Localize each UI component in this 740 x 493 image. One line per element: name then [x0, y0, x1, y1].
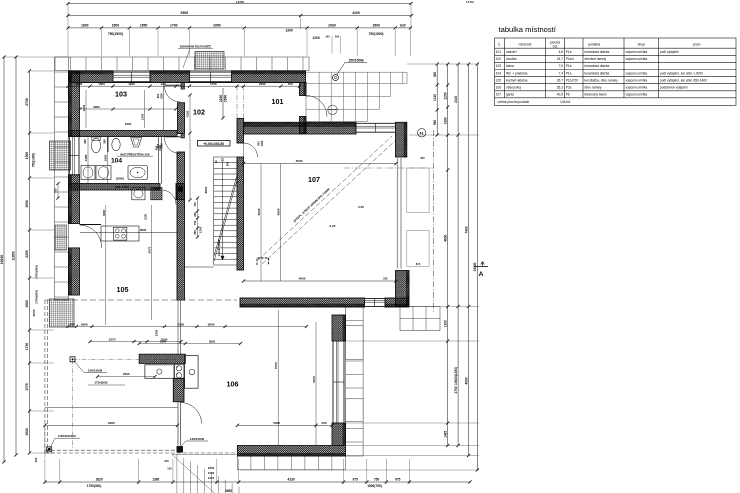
- wall left exterior mid: [69, 175, 80, 224]
- svg-text:6400: 6400: [102, 210, 106, 216]
- bath partition 104: [107, 137, 109, 153]
- svg-text:P1a: P1a: [566, 50, 572, 54]
- garage bottom window: [365, 298, 386, 306]
- svg-text:3900: 3900: [93, 105, 100, 109]
- exterior entry steps: [306, 72, 407, 121]
- top dim segments: [66, 24, 412, 30]
- svg-text:615: 615: [416, 262, 421, 266]
- left dim line 11850: [12, 55, 18, 456]
- kitchen counter right: [185, 356, 199, 389]
- svg-text:103: 103: [496, 64, 502, 68]
- svg-text:106: 106: [496, 85, 502, 89]
- washer: [81, 166, 95, 180]
- level label box: [198, 141, 231, 147]
- terrace outline dashed: [44, 300, 46, 453]
- svg-text:podlahové vytápění: podlahové vytápění: [660, 85, 688, 89]
- wall corridor/garage (stair wall) upper: [237, 118, 244, 143]
- svg-text:4800: 4800: [443, 234, 447, 241]
- svg-text:150/150/B: 150/150/B: [348, 59, 364, 63]
- toilet 2: [112, 138, 120, 150]
- svg-text:DOMOVNÍ ROZVADĚČ: DOMOVNÍ ROZVADĚČ: [180, 44, 212, 49]
- svg-text:100/100/B: 100/100/B: [190, 437, 205, 441]
- column at steps: [178, 447, 184, 453]
- svg-text:40,5: 40,5: [557, 93, 563, 97]
- paving band top: [55, 57, 309, 71]
- svg-text:2370: 2370: [109, 337, 116, 341]
- svg-text:č.: č.: [498, 43, 501, 47]
- 9500 lower-left verticals: [44, 429, 46, 458]
- svg-text:103: 103: [115, 91, 127, 99]
- svg-text:750(1500): 750(1500): [108, 32, 123, 36]
- svg-text:450: 450: [70, 322, 75, 326]
- svg-text:750: 750: [193, 202, 197, 207]
- svg-text:2500: 2500: [123, 372, 130, 376]
- room 106 south wall: [237, 446, 345, 457]
- interior dims room 103: [78, 105, 177, 111]
- svg-text:250: 250: [164, 459, 169, 463]
- svg-text:2050: 2050: [161, 93, 164, 99]
- bracket mark: [257, 258, 269, 265]
- room 106 east wall lower block: [332, 423, 346, 446]
- door 104-105 arc: [163, 190, 177, 205]
- svg-text:2170: 2170: [208, 476, 215, 480]
- kitchen counter left: [145, 365, 174, 379]
- svg-text:2730: 2730: [25, 98, 29, 106]
- wall left exterior upper: [69, 71, 80, 137]
- svg-text:keramická dlažba: keramická dlažba: [585, 71, 610, 75]
- partition 105/106 lower glazing: [178, 402, 181, 446]
- svg-text:1200: 1200: [312, 36, 320, 40]
- paving below garage corner: [400, 307, 440, 331]
- svg-text:2150: 2150: [208, 471, 215, 475]
- svg-text:35,3: 35,3: [557, 85, 563, 89]
- svg-text:450: 450: [321, 421, 326, 425]
- svg-text:WC + prádelna: WC + prádelna: [506, 71, 528, 75]
- terrace north dashed line: [45, 299, 237, 301]
- svg-text:1750(300): 1750(300): [87, 484, 102, 488]
- svg-text:vápcem.omítka: vápcem.omítka: [626, 85, 648, 89]
- svg-text:1300: 1300: [76, 82, 83, 86]
- svg-text:300: 300: [34, 457, 38, 462]
- svg-text:300: 300: [335, 36, 340, 39]
- svg-text:105: 105: [496, 78, 502, 82]
- entry door arc: [306, 96, 327, 117]
- paving column left: [55, 57, 69, 300]
- svg-text:podl vytápění, ker.obkl. v.200: podl vytápění, ker.obkl. v.2000: [660, 71, 703, 75]
- wall top segment B: [150, 71, 190, 83]
- svg-text:4000: 4000: [464, 377, 468, 384]
- bottom dim chains: [43, 477, 471, 483]
- svg-text:kuchyň+jídelna: kuchyň+jídelna: [506, 78, 528, 82]
- door terrace opening + arc: [80, 225, 102, 248]
- svg-text:4150: 4150: [186, 110, 190, 117]
- svg-text:620: 620: [400, 24, 406, 28]
- svg-text:1300: 1300: [285, 29, 293, 33]
- pergola beams dashdot: [73, 358, 179, 360]
- svg-text:garáž: garáž: [506, 93, 514, 97]
- wall right of room 101 lower: [300, 117, 307, 134]
- kitchen wall band vertical: [173, 378, 184, 401]
- svg-text:1750(300): 1750(300): [94, 381, 107, 385]
- electrical cabinet grid (domovni rozvadec): [195, 52, 224, 70]
- column 150/150 circle: [333, 75, 339, 81]
- svg-text:4,8: 4,8: [559, 50, 564, 54]
- svg-text:1200: 1200: [199, 226, 203, 233]
- paving column right of room 106: [346, 307, 364, 456]
- svg-text:250: 250: [193, 230, 197, 235]
- svg-text:8600: 8600: [204, 186, 208, 193]
- top dim line overall: [66, 2, 412, 5]
- svg-text:strop: strop: [637, 43, 645, 47]
- svg-text:vápcem.omítka: vápcem.omítka: [626, 71, 648, 75]
- svg-text:14700: 14700: [236, 0, 244, 4]
- svg-text:-0,20: -0,20: [329, 224, 336, 228]
- toilet 1: [91, 138, 100, 153]
- interior staircase: [214, 157, 237, 265]
- wall left exterior lower: [69, 248, 80, 295]
- svg-text:2050: 2050: [261, 140, 264, 146]
- svg-text:tabulka místností: tabulka místností: [499, 25, 557, 34]
- room 106 east window: [333, 341, 344, 423]
- svg-text:HTR100/100: HTR100/100: [58, 434, 76, 438]
- extension verticals top: [68, 4, 411, 57]
- svg-text:4530: 4530: [296, 159, 303, 163]
- window top 103: [113, 72, 150, 82]
- svg-text:7,6: 7,6: [559, 64, 564, 68]
- svg-text:2250: 2250: [208, 466, 215, 470]
- dim labels room 103: [144, 90, 146, 128]
- garage east wall (above cut, grey): [398, 157, 402, 269]
- room 105 dims: [66, 322, 308, 328]
- cooktop burners: [176, 366, 181, 371]
- svg-text:1920: 1920: [25, 428, 29, 436]
- svg-text:104: 104: [496, 71, 502, 75]
- svg-text:0,05: 0,05: [358, 205, 364, 209]
- svg-text:390: 390: [103, 139, 107, 144]
- svg-text:5000: 5000: [257, 208, 261, 215]
- svg-text:2500: 2500: [32, 309, 36, 316]
- svg-text:m2: m2: [553, 44, 558, 48]
- svg-text:1850: 1850: [103, 154, 107, 161]
- svg-text:P6: P6: [566, 93, 570, 97]
- svg-text:975: 975: [352, 477, 358, 481]
- left dim line outer: [0, 55, 6, 463]
- garage top window: [356, 123, 396, 132]
- svg-text:1550: 1550: [140, 24, 148, 28]
- svg-text:užitná plocha podlaží: užitná plocha podlaží: [498, 100, 530, 104]
- svg-text:4070: 4070: [148, 246, 152, 253]
- svg-text:750: 750: [193, 220, 197, 225]
- svg-text:2950: 2950: [213, 24, 221, 28]
- svg-text:4900: 4900: [108, 421, 115, 425]
- svg-text:3800: 3800: [209, 339, 216, 343]
- utility sink room 105: [132, 187, 145, 199]
- wall right of room 101 upper: [300, 83, 307, 96]
- svg-text:vápcem.omítka: vápcem.omítka: [626, 50, 648, 54]
- svg-text:vápcem.omítka: vápcem.omítka: [626, 78, 648, 82]
- svg-text:1425: 1425: [443, 430, 447, 437]
- svg-text:F1: F1: [420, 131, 424, 135]
- west glazing room 105: [178, 300, 181, 354]
- svg-text:4800: 4800: [225, 489, 232, 493]
- svg-text:ker.dlažba, dřev. lamely: ker.dlažba, dřev. lamely: [585, 78, 619, 82]
- svg-text:102: 102: [496, 57, 502, 61]
- exterior steps bottom terrace: [172, 454, 239, 493]
- interior dim chain below top wall: [66, 82, 301, 88]
- svg-text:2250: 2250: [155, 329, 159, 336]
- svg-text:podlaha: podlaha: [588, 43, 600, 47]
- svg-text:17,5m: 17,5m: [466, 0, 474, 4]
- svg-text:1900: 1900: [82, 104, 86, 111]
- wall between 104 and 102 lower: [177, 152, 185, 300]
- svg-text:4605: 4605: [299, 277, 306, 281]
- svg-text:(900–1400): (900–1400): [115, 185, 129, 189]
- svg-text:11850: 11850: [12, 251, 16, 260]
- wall top of room 104: [69, 131, 178, 137]
- door 104 leaf+arc: [164, 136, 181, 138]
- svg-text:750: 750: [54, 188, 58, 193]
- svg-text:1220: 1220: [128, 82, 135, 86]
- svg-text:750(1300): 750(1300): [32, 153, 36, 168]
- svg-text:dřev. lamely: dřev. lamely: [585, 85, 602, 89]
- room table: [495, 38, 737, 105]
- svg-text:P1a: P1a: [566, 71, 572, 75]
- svg-text:1900: 1900: [25, 200, 29, 208]
- svg-text:26,7: 26,7: [557, 78, 563, 82]
- svg-text:podl vytápění, ker.obkl. 850-1: podl vytápění, ker.obkl. 850-1400: [660, 78, 707, 82]
- svg-text:1230: 1230: [144, 214, 148, 220]
- svg-text:2250: 2250: [25, 250, 29, 258]
- extension verticals bottom: [45, 459, 409, 484]
- svg-text:1770: 1770: [25, 383, 29, 391]
- svg-text:P2a,b: P2a,b: [566, 57, 575, 61]
- svg-text:975: 975: [395, 477, 401, 481]
- right dim chains: [433, 62, 439, 136]
- svg-text:dřevěné lamely: dřevěné lamely: [585, 57, 607, 61]
- grid square left 2: [55, 225, 67, 250]
- svg-text:(2000): (2000): [116, 177, 124, 181]
- 4900 pergola dim: [43, 421, 179, 427]
- svg-text:950: 950: [226, 161, 230, 166]
- svg-text:4800: 4800: [277, 208, 281, 215]
- svg-text:101: 101: [496, 50, 502, 54]
- svg-text:2750: 2750: [454, 386, 458, 393]
- svg-text:+0,00=336,50: +0,00=336,50: [203, 142, 224, 146]
- dryer: [96, 166, 111, 180]
- extension horizontals left: [4, 57, 54, 453]
- svg-text:keramická dlažba: keramická dlažba: [585, 64, 610, 68]
- svg-text:750: 750: [374, 477, 380, 481]
- svg-text:1700: 1700: [170, 24, 178, 28]
- installation partition 104: [158, 137, 160, 184]
- dining table room 105: [101, 226, 139, 241]
- wall top room 103 segment A: [69, 71, 114, 83]
- svg-text:2250: 2250: [443, 92, 447, 99]
- garage top wall: [244, 122, 357, 134]
- dim line through 105: [80, 231, 177, 233]
- wall between 104 and 105: [69, 184, 161, 191]
- column marker in wall: [178, 187, 183, 192]
- svg-text:obýv.pokoj: obýv.pokoj: [506, 85, 521, 89]
- corridor vertical dim 2250: [222, 88, 224, 118]
- svg-text:kletovaný beton: kletovaný beton: [585, 93, 608, 97]
- svg-text:4230: 4230: [288, 477, 295, 481]
- vertical dim corridor: [186, 93, 192, 201]
- paving row below room 106: [237, 456, 345, 470]
- svg-text:120: 120: [161, 82, 166, 86]
- svg-text:360: 360: [83, 139, 87, 144]
- dims above kitchen: [138, 342, 243, 345]
- svg-text:5800: 5800: [273, 421, 280, 425]
- svg-text:1750(300): 1750(300): [35, 290, 39, 304]
- svg-text:1485: 1485: [84, 154, 88, 161]
- svg-text:10000(1250): 10000(1250): [454, 367, 458, 385]
- svg-text:300: 300: [193, 212, 197, 217]
- garage bottom wall: [240, 298, 365, 307]
- svg-text:107: 107: [496, 93, 502, 97]
- F1 circle: [418, 129, 426, 137]
- svg-text:2100: 2100: [454, 96, 458, 103]
- svg-text:1500: 1500: [224, 95, 228, 103]
- svg-text:1700: 1700: [210, 82, 217, 86]
- svg-text:1750(300): 1750(300): [35, 265, 39, 279]
- svg-text:1500(750): 1500(750): [367, 484, 382, 488]
- pier above 103 door: [181, 83, 185, 89]
- svg-text:3800: 3800: [208, 322, 215, 326]
- svg-text:P1b,P2b: P1b,P2b: [566, 78, 578, 82]
- svg-text:zádveří: zádveří: [506, 50, 517, 54]
- svg-text:1300: 1300: [443, 320, 447, 327]
- svg-text:9500: 9500: [181, 11, 189, 15]
- svg-text:102: 102: [193, 109, 205, 117]
- drain circle: [328, 105, 337, 114]
- svg-text:105: 105: [117, 286, 129, 294]
- small chain near stairs: [193, 196, 199, 238]
- pier above 104 door: [181, 134, 185, 139]
- extension horizontals right: [240, 64, 479, 470]
- svg-text:450: 450: [433, 72, 437, 78]
- svg-text:3900: 3900: [81, 322, 88, 326]
- door to garage arc: [244, 143, 258, 157]
- svg-text:2100: 2100: [158, 145, 162, 151]
- bathtub: [128, 166, 147, 180]
- svg-text:1500: 1500: [25, 152, 29, 160]
- svg-text:525: 525: [383, 277, 388, 281]
- svg-text:15000: 15000: [0, 255, 4, 265]
- terrace paving edge line: [45, 407, 178, 409]
- door 103 leaf+arc: [164, 84, 181, 86]
- svg-text:1130: 1130: [433, 94, 437, 101]
- svg-text:1380: 1380: [152, 477, 159, 481]
- svg-text:2100: 2100: [177, 322, 184, 326]
- svg-text:104: 104: [111, 158, 122, 165]
- window left bathroom: [69, 137, 79, 175]
- column at partition base: [177, 446, 183, 453]
- svg-text:4200: 4200: [352, 11, 360, 15]
- svg-text:podl vytápění: podl vytápění: [660, 50, 679, 54]
- svg-text:590: 590: [433, 120, 437, 126]
- dim lines inside 104: [87, 137, 89, 183]
- garage interior dims: [242, 162, 398, 165]
- svg-text:2100: 2100: [160, 339, 167, 343]
- svg-text:pozn.: pozn.: [693, 43, 701, 47]
- left dim chain segments: [25, 69, 31, 454]
- svg-text:100/100/B: 100/100/B: [88, 369, 103, 373]
- svg-text:místnost: místnost: [519, 43, 532, 47]
- window top 102: [190, 72, 232, 82]
- grid square left 1: [50, 141, 71, 170]
- svg-text:keramická dlažba: keramická dlažba: [585, 50, 610, 54]
- svg-text:šatna: šatna: [506, 64, 514, 68]
- wall axis dashdot above 101: [236, 86, 238, 118]
- garage diagonal marks: [262, 140, 396, 264]
- roof dashdot outline: [433, 130, 435, 312]
- pergola column 2: [48, 448, 51, 451]
- svg-text:107: 107: [308, 176, 320, 184]
- kitchen wall band horizontal: [139, 354, 185, 363]
- top dim line 9500/4200: [66, 11, 413, 17]
- svg-text:7,4: 7,4: [559, 71, 564, 75]
- pergola column 1: [70, 357, 75, 362]
- window mullions: [131, 72, 133, 82]
- svg-text:1730: 1730: [25, 343, 29, 351]
- svg-text:100: 100: [325, 36, 330, 39]
- svg-text:3900: 3900: [140, 228, 147, 232]
- svg-text:106: 106: [227, 381, 239, 389]
- svg-text:450: 450: [288, 82, 293, 86]
- svg-text:400: 400: [420, 156, 425, 160]
- svg-text:3150: 3150: [312, 376, 316, 383]
- svg-text:1900: 1900: [25, 300, 29, 308]
- svg-text:1500: 1500: [112, 24, 120, 28]
- svg-text:1300: 1300: [141, 113, 145, 120]
- svg-text:2060: 2060: [328, 24, 336, 28]
- svg-text:1500: 1500: [98, 82, 105, 86]
- svg-text:100: 100: [167, 467, 172, 471]
- svg-text:7400: 7400: [464, 226, 468, 233]
- svg-text:101: 101: [272, 98, 284, 106]
- svg-text:A: A: [479, 271, 484, 278]
- left inner chain: [54, 182, 60, 200]
- svg-text:vápcem.omítka: vápcem.omítka: [626, 93, 648, 97]
- garage SE corner: [396, 271, 410, 307]
- svg-text:1500: 1500: [372, 24, 380, 28]
- garage NE corner: [396, 122, 407, 157]
- shower square room 105: [151, 187, 162, 199]
- svg-text:5750: 5750: [274, 362, 278, 369]
- svg-text:2820: 2820: [96, 477, 103, 481]
- svg-text:P2a: P2a: [566, 85, 572, 89]
- svg-text:1300: 1300: [443, 117, 447, 124]
- svg-text:1800: 1800: [81, 24, 89, 28]
- wall top segment C above 101: [232, 71, 306, 83]
- closet line 103: [163, 83, 165, 131]
- svg-text:P1a: P1a: [566, 64, 572, 68]
- svg-text:vápcem.omítka: vápcem.omítka: [626, 57, 648, 61]
- grid square left 3: [50, 299, 75, 327]
- svg-text:141m2: 141m2: [560, 100, 570, 104]
- washbasin: [131, 138, 142, 148]
- kitchen dims: [96, 372, 157, 378]
- garage bottom corner piece: [385, 298, 409, 307]
- room 106 east wall upper block: [332, 315, 346, 341]
- svg-text:chodba: chodba: [506, 57, 517, 61]
- stair wall lower: [237, 157, 244, 270]
- svg-text:750(1500): 750(1500): [368, 32, 383, 36]
- svg-text:1300: 1300: [125, 122, 132, 126]
- svg-text:2000: 2000: [259, 82, 266, 86]
- door arc 106: [181, 403, 202, 424]
